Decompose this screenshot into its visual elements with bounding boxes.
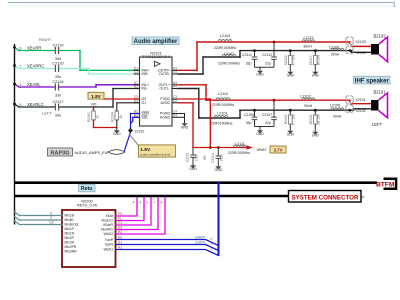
- svg-text:GND: GND: [312, 134, 320, 138]
- svg-text:6: 6: [147, 201, 149, 205]
- svg-text:Mic2PR: Mic2PR: [65, 245, 77, 249]
- svg-text:X2101: X2101: [356, 98, 366, 102]
- svg-text:TPA2012D2DYZH4: TPA2012D2DYZH4: [141, 55, 170, 59]
- svg-text:X2103: X2103: [356, 40, 366, 44]
- svg-text:4.7 16V: 4.7 16V: [291, 113, 295, 125]
- svg-text:WeD1: WeD1: [104, 248, 113, 252]
- svg-text:C2118: C2118: [53, 80, 64, 84]
- svg-text:0R: 0R: [203, 155, 207, 160]
- svg-text:D4: D4: [173, 113, 177, 117]
- svg-text:X2102: X2102: [356, 109, 366, 113]
- svg-text:220R/100MHz: 220R/100MHz: [210, 121, 233, 125]
- svg-text:SDL: SDL: [142, 116, 149, 120]
- svg-text:XEar: XEar: [105, 214, 113, 218]
- svg-text:B2102: B2102: [373, 33, 386, 38]
- svg-text:VIO: VIO: [91, 102, 97, 106]
- svg-text:3.7V: 3.7V: [273, 148, 282, 153]
- svg-text:INL-: INL-: [142, 87, 149, 91]
- svg-text:MicB1: MicB1: [65, 218, 75, 222]
- svg-text:ModeOut: ModeOut: [65, 223, 79, 227]
- svg-text:GND: GND: [256, 73, 264, 77]
- svg-text:RIGHT: RIGHT: [39, 37, 52, 42]
- svg-text:Audio amplifier: Audio amplifier: [134, 39, 178, 45]
- svg-text:C1: C1: [134, 70, 138, 74]
- svg-text:LEFT: LEFT: [42, 111, 52, 116]
- svg-text:30nH: 30nH: [331, 53, 340, 57]
- svg-text:220R/100MHz: 220R/100MHz: [228, 151, 251, 155]
- svg-text:XEARL: XEARL: [27, 82, 41, 87]
- svg-text:L2105: L2105: [330, 104, 340, 108]
- svg-text:IHF speaker: IHF speaker: [355, 78, 390, 84]
- svg-text:Retu: Retu: [81, 186, 93, 192]
- svg-text:XEARRC: XEARRC: [27, 64, 44, 69]
- svg-text:GND: GND: [113, 132, 121, 136]
- svg-text:1/2: 1/2: [49, 221, 54, 225]
- svg-text:33p: 33p: [246, 121, 252, 125]
- svg-text:AGND: AGND: [160, 116, 171, 120]
- svg-text:L2107: L2107: [224, 52, 234, 56]
- svg-text:220R/100MHz: 220R/100MHz: [212, 103, 235, 107]
- svg-text:33n: 33n: [55, 57, 61, 61]
- svg-text:L2113: L2113: [304, 36, 314, 40]
- svg-text:L2106: L2106: [329, 46, 339, 50]
- svg-text:RAP3G: RAP3G: [50, 151, 69, 157]
- svg-text:LEFT: LEFT: [372, 122, 383, 127]
- svg-text:1.8V: 1.8V: [91, 94, 101, 99]
- svg-text:WeD2: WeD2: [104, 232, 113, 236]
- svg-text:GND: GND: [287, 74, 295, 78]
- svg-text:6: 6: [50, 212, 52, 216]
- svg-text:30nH: 30nH: [303, 44, 312, 48]
- svg-text:EarP: EarP: [105, 238, 113, 242]
- svg-text:C2111: C2111: [242, 53, 252, 57]
- svg-text:C2112: C2112: [262, 53, 272, 57]
- svg-text:X2104: X2104: [356, 51, 366, 55]
- svg-text:100n: 100n: [220, 154, 224, 162]
- svg-text:8: 8: [161, 201, 163, 205]
- svg-text:6: 6: [20, 47, 22, 51]
- svg-text:R2101: R2101: [87, 112, 91, 122]
- svg-text:XEarR: XEarR: [103, 223, 114, 227]
- svg-text:L2104: L2104: [220, 34, 230, 38]
- svg-text:C2117: C2117: [53, 100, 64, 104]
- svg-text:L2110: L2110: [218, 92, 228, 96]
- svg-text:R2117: R2117: [309, 55, 313, 65]
- svg-text:22p: 22p: [265, 62, 271, 66]
- svg-text:Mic2P: Mic2P: [65, 236, 75, 240]
- svg-text:B2101: B2101: [373, 89, 386, 94]
- svg-text:A4: A4: [173, 85, 177, 89]
- svg-text:R2119: R2119: [284, 115, 288, 125]
- svg-text:C4: C4: [173, 70, 177, 74]
- svg-text:1: 1: [211, 242, 213, 246]
- svg-text:XEARLC: XEARLC: [27, 102, 44, 107]
- svg-text:22p: 22p: [265, 121, 271, 125]
- svg-text:C2120: C2120: [52, 61, 63, 65]
- svg-text:1R 16V: 1R 16V: [316, 113, 320, 125]
- svg-text:BTFM: BTFM: [376, 182, 395, 189]
- svg-text:4.7 16V: 4.7 16V: [291, 54, 295, 66]
- svg-text:VBAT: VBAT: [257, 147, 268, 152]
- svg-text:220R/100MHz: 220R/100MHz: [214, 46, 237, 50]
- svg-text:Mic1B: Mic1B: [65, 214, 75, 218]
- svg-text:GND: GND: [215, 168, 223, 172]
- svg-text:4: 4: [20, 83, 22, 87]
- svg-text:AUDIO_AMPS_EN: AUDIO_AMPS_EN: [75, 150, 108, 155]
- svg-text:RETU_3.05: RETU_3.05: [77, 204, 97, 208]
- svg-text:33p: 33p: [246, 62, 252, 66]
- svg-text:C2107: C2107: [262, 113, 272, 117]
- svg-text:30nH: 30nH: [333, 114, 342, 118]
- svg-text:1k: 1k: [96, 115, 100, 119]
- svg-text:AVDD: AVDD: [161, 101, 171, 105]
- svg-text:INR-: INR-: [142, 72, 150, 76]
- svg-text:GND: GND: [181, 126, 189, 130]
- svg-text:C2114: C2114: [211, 153, 215, 163]
- svg-text:0: 0: [211, 237, 213, 241]
- svg-text:XEARR: XEARR: [27, 46, 41, 51]
- svg-text:7: 7: [20, 65, 22, 69]
- svg-text:5: 5: [20, 103, 22, 107]
- svg-text:2: 2: [211, 247, 213, 251]
- svg-text:EARN: EARN: [195, 241, 205, 245]
- svg-text:C2119: C2119: [53, 43, 64, 47]
- svg-text:C2106: C2106: [244, 113, 254, 117]
- svg-text:Mic2N: Mic2N: [65, 241, 75, 245]
- svg-text:220R/100MHz: 220R/100MHz: [218, 62, 241, 66]
- svg-text:XEarLC: XEarLC: [101, 219, 113, 223]
- svg-text:>: >: [362, 195, 365, 200]
- svg-text:5: 5: [140, 201, 142, 205]
- svg-text:R2118: R2118: [284, 55, 288, 65]
- svg-text:R2104: R2104: [110, 112, 114, 122]
- svg-text:Mic1P: Mic1P: [65, 227, 75, 231]
- svg-text:Mic1N: Mic1N: [65, 232, 75, 236]
- svg-text:100n: 100n: [195, 154, 199, 162]
- svg-text:SYSTEM CONNECTOR: SYSTEM CONNECTOR: [292, 194, 359, 201]
- svg-text:GND: GND: [312, 74, 320, 78]
- svg-text:33n: 33n: [55, 75, 61, 79]
- svg-text:(audio amplifier active): (audio amplifier active): [140, 153, 170, 157]
- svg-text:7: 7: [154, 201, 156, 205]
- svg-text:Mic2NR: Mic2NR: [65, 250, 78, 254]
- svg-text:4: 4: [133, 201, 135, 205]
- svg-text:L2111: L2111: [235, 142, 245, 146]
- svg-text:30nH: 30nH: [304, 104, 313, 108]
- svg-text:R2120: R2120: [309, 114, 313, 124]
- svg-text:EARP: EARP: [195, 236, 205, 240]
- svg-text:XEarRC: XEarRC: [101, 228, 114, 232]
- svg-text:B1: B1: [134, 85, 138, 89]
- svg-text:OUTR-: OUTR-: [159, 72, 171, 76]
- svg-text:GND: GND: [256, 132, 264, 136]
- svg-text:L2102: L2102: [300, 94, 310, 98]
- svg-text:D2: D2: [173, 99, 177, 103]
- svg-text:GND: GND: [189, 167, 197, 171]
- svg-text:G1: G1: [142, 101, 147, 105]
- svg-text:J2110: J2110: [135, 130, 145, 134]
- svg-text:1k: 1k: [119, 115, 123, 119]
- svg-text:1R 16V: 1R 16V: [316, 54, 320, 66]
- svg-text:C2110: C2110: [186, 153, 190, 163]
- svg-text:33n: 33n: [55, 113, 61, 117]
- svg-text:EarN: EarN: [105, 243, 113, 247]
- svg-text:33n: 33n: [55, 93, 61, 97]
- svg-text:L2101: L2101: [217, 112, 227, 116]
- svg-text:OUTL-: OUTL-: [160, 87, 171, 91]
- svg-text:GND: GND: [287, 133, 295, 137]
- svg-text:9: 9: [50, 216, 52, 220]
